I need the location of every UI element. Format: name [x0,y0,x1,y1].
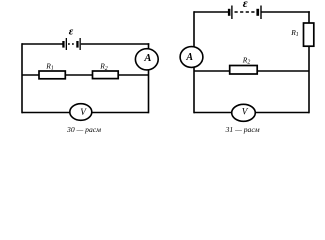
wire: left circuit middle branch [22,74,149,76]
voltmeter V (left circuit) [70,104,92,121]
battery E1 (left circuit, cell 2 plates) [76,38,81,50]
wire: left circuit top-left segment [22,43,63,45]
wire: right circuit right side [308,11,310,113]
resistor R2 (right circuit) [230,66,258,75]
svg-text:30 — расм: 30 — расм [66,125,101,134]
battery E2 (right circuit, cell 2 plates) [256,6,261,20]
battery E2 (right circuit, cell 1 plates) [228,6,233,20]
wire: left circuit left side [21,43,23,113]
wire: left circuit bottom [22,112,149,114]
wire: right circuit top-right segment [262,11,310,13]
svg-text:ε: ε [69,26,74,38]
ammeter A (left circuit) [135,49,158,70]
wire: right circuit middle branch [194,70,309,72]
resistor R2 (left circuit) [93,71,119,79]
svg-text:A: A [143,53,151,64]
battery E1 (left circuit, cell 1 plates) [62,38,67,50]
wire: left circuit right side [148,43,150,113]
wire: right circuit left side [193,11,195,113]
wire: dashed link between battery cells (left circuit) [68,43,76,45]
wire: right circuit bottom [194,112,309,114]
svg-text:ε: ε [243,0,248,10]
resistor R1 (left circuit) [39,71,65,79]
svg-text:31 — расм: 31 — расм [225,125,260,134]
ammeter A (right circuit) [180,47,203,68]
svg-text:A: A [185,52,193,63]
voltmeter V (right circuit) [232,104,256,121]
wire: left circuit top-right segment [81,43,150,45]
wire: dashed link between battery cells (right circuit) [235,11,257,13]
wire: right circuit top-left segment [194,11,228,13]
resistor R1 (right circuit, vertical) [304,23,314,46]
